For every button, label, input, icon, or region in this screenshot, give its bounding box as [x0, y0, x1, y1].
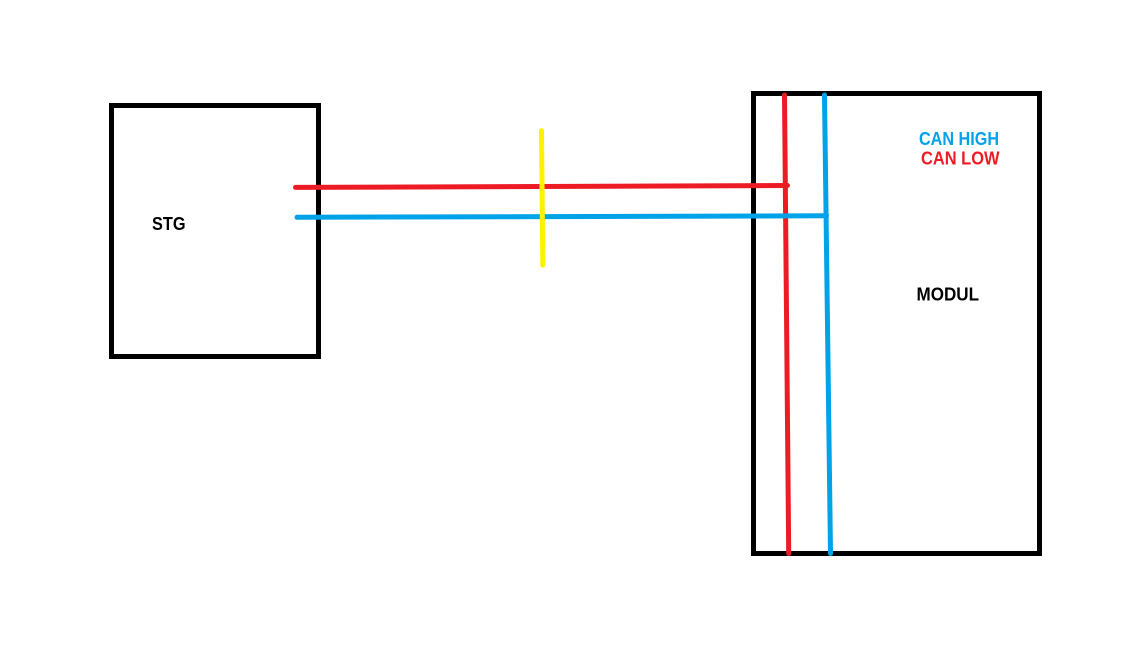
- wire yellow twist mark: [542, 131, 543, 265]
- svg-text:CAN LOW: CAN LOW: [921, 149, 1000, 169]
- wire CAN LOW vertical (red, inside MODUL): [785, 95, 789, 554]
- wire CAN LOW horizontal (red, STG to MODUL): [296, 186, 788, 188]
- box STG: [112, 106, 319, 357]
- box MODUL: [754, 94, 1040, 554]
- wire CAN HIGH horizontal (blue, STG to MODUL): [297, 216, 827, 218]
- svg-text:STG: STG: [152, 214, 186, 234]
- svg-text:CAN HIGH: CAN HIGH: [919, 129, 999, 149]
- svg-text:MODUL: MODUL: [917, 285, 980, 305]
- wire CAN HIGH vertical (blue, inside MODUL): [825, 95, 831, 554]
